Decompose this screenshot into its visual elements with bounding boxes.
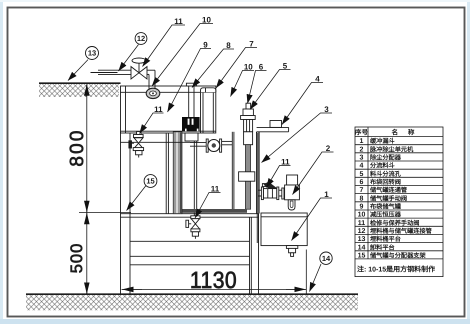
svg-text:3: 3 [360,155,364,162]
svg-text:11: 11 [154,105,163,114]
svg-text:3: 3 [324,105,329,114]
svg-text:料斗分流孔: 料斗分流孔 [370,170,402,178]
svg-text:1: 1 [324,190,329,199]
svg-text:布袋储气罐: 布袋储气罐 [369,203,402,211]
svg-text:11: 11 [174,17,183,26]
svg-text:8: 8 [226,41,231,50]
svg-text:500: 500 [68,243,86,274]
svg-text:10: 10 [358,212,366,219]
svg-text:名 称: 名 称 [391,128,418,136]
svg-text:6: 6 [360,179,364,186]
svg-text:5: 5 [283,62,288,71]
svg-text:2: 2 [360,146,364,153]
svg-text:15: 15 [358,252,366,259]
svg-text:11: 11 [211,185,220,194]
svg-text:序号: 序号 [355,128,369,136]
svg-text:4: 4 [360,163,364,170]
svg-text:1130: 1130 [190,267,237,293]
svg-text:14: 14 [322,254,331,263]
svg-text:9: 9 [360,204,364,211]
svg-text:4: 4 [315,75,320,84]
svg-text:缓冲漏斗: 缓冲漏斗 [369,137,395,145]
svg-text:12: 12 [358,228,366,235]
svg-text:储气罐与分配器支架: 储气罐与分配器支架 [369,251,426,259]
svg-text:6: 6 [259,63,264,72]
svg-text:分流料斗: 分流料斗 [370,162,395,170]
svg-text:脉冲除尘单元机: 脉冲除尘单元机 [369,145,414,153]
svg-text:埋料桶平台: 埋料桶平台 [370,235,401,243]
svg-text:储气罐手动阀: 储气罐手动阀 [369,194,407,202]
svg-text:2: 2 [326,144,331,153]
svg-text:9: 9 [203,41,208,50]
svg-text:储气罐连通管: 储气罐连通管 [369,186,407,194]
svg-text:埋料桶与储气罐连接管: 埋料桶与储气罐连接管 [370,227,432,235]
svg-text:10: 10 [244,63,253,72]
svg-text:检修与保养手动阀: 检修与保养手动阀 [370,219,420,227]
svg-text:15: 15 [146,177,154,186]
svg-text:14: 14 [358,244,366,251]
svg-text:11: 11 [358,220,366,227]
svg-text:除尘分配器: 除尘分配器 [370,154,402,162]
svg-text:卸料平台: 卸料平台 [370,243,395,251]
svg-text:800: 800 [67,128,88,166]
svg-text:8: 8 [360,195,364,202]
svg-text:7: 7 [249,40,254,49]
svg-text:11: 11 [281,158,290,167]
svg-text:5: 5 [360,171,364,178]
svg-text:7: 7 [360,187,364,194]
svg-text:13: 13 [358,236,366,243]
svg-text:13: 13 [88,49,96,58]
svg-text:10: 10 [202,16,211,25]
svg-text:注: 10-15是用方钢料制作: 注: 10-15是用方钢料制作 [357,265,435,274]
svg-text:布袋回转阀: 布袋回转阀 [369,178,401,186]
svg-text:12: 12 [137,34,145,43]
svg-text:减压恒压器: 减压恒压器 [370,211,402,219]
svg-text:1: 1 [360,138,364,145]
